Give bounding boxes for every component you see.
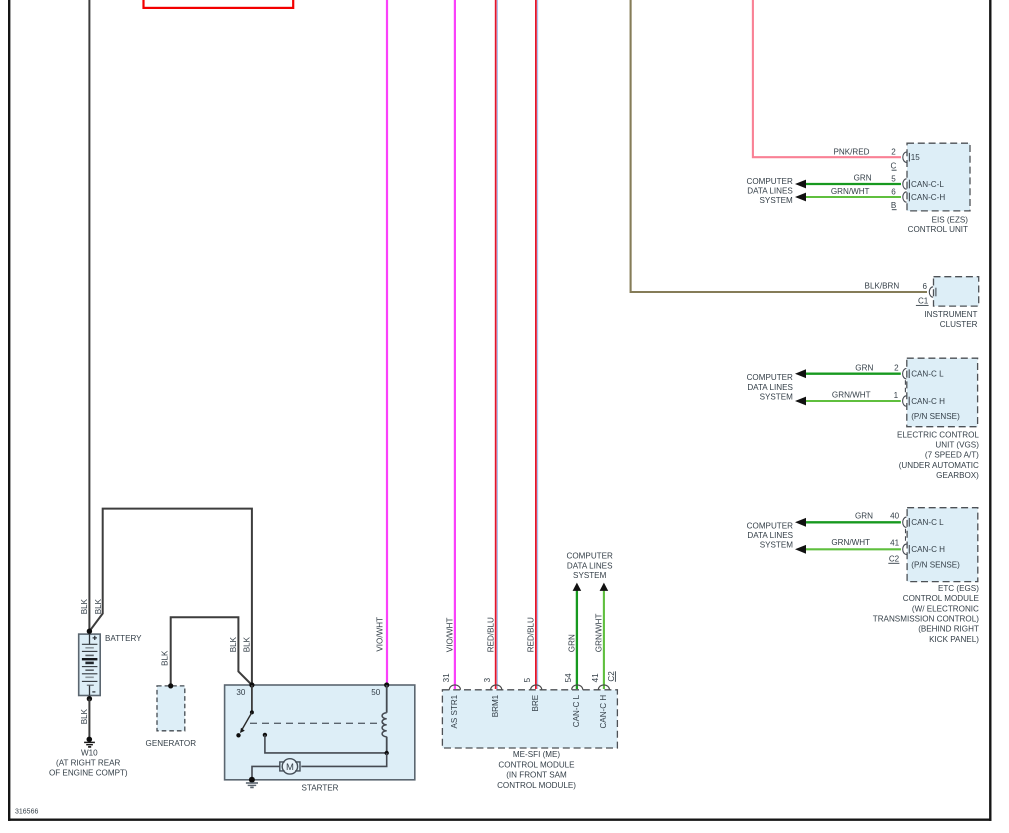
label ME-SFI caption	[497, 750, 576, 790]
wire VIO/WHT to starter 50	[386, 0, 388, 685]
battery B1	[79, 634, 101, 695]
svg-text:DATA LINES: DATA LINES	[747, 186, 793, 195]
svg-text:(7 SPEED A/T): (7 SPEED A/T)	[925, 451, 979, 460]
connector bracket VGS	[904, 380, 906, 394]
svg-text:TRANSMISSION CONTROL): TRANSMISSION CONTROL)	[873, 615, 979, 624]
svg-text:CLUSTER: CLUSTER	[940, 320, 978, 329]
svg-text:C2: C2	[607, 671, 616, 682]
svg-text:316566: 316566	[15, 809, 38, 816]
label VGS caption	[897, 430, 979, 480]
svg-text:(BEHIND RIGHT: (BEHIND RIGHT	[918, 625, 979, 634]
wire BLK battery to ground W10	[88, 699, 90, 737]
arrow left GRN (EIS)	[795, 180, 806, 189]
svg-text:3: 3	[483, 677, 492, 682]
svg-text:5: 5	[523, 677, 532, 682]
connector arc VGS pin 2	[903, 369, 910, 379]
svg-text:(UNDER AUTOMATIC: (UNDER AUTOMATIC	[899, 461, 979, 470]
label EIS caption	[908, 215, 969, 234]
svg-text:GRN/WHT: GRN/WHT	[832, 391, 871, 400]
svg-text:C: C	[890, 161, 896, 170]
node computer data lines system (middle)	[567, 552, 614, 580]
svg-text:SYSTEM: SYSTEM	[573, 571, 607, 580]
svg-text:OF ENGINE COMPT): OF ENGINE COMPT)	[49, 768, 128, 777]
connector C2 (ME)	[607, 671, 616, 682]
svg-text:CAN-C L: CAN-C L	[911, 518, 944, 527]
wire RED/BLU to ME pin 5	[536, 0, 538, 689]
svg-text:C1: C1	[918, 297, 929, 306]
red highlight box	[144, 0, 294, 8]
connector bracket EGS C2	[905, 529, 907, 543]
svg-text:BLK: BLK	[229, 636, 238, 652]
svg-text:KICK PANEL): KICK PANEL)	[929, 635, 979, 644]
wire GRN EIS pin 5	[803, 183, 901, 185]
svg-text:COMPUTER: COMPUTER	[747, 373, 793, 382]
svg-text:41: 41	[591, 673, 600, 683]
svg-text:CONTROL UNIT: CONTROL UNIT	[908, 225, 968, 234]
svg-text:40: 40	[890, 512, 900, 521]
svg-text:M: M	[286, 762, 294, 773]
instrument cluster box	[934, 277, 979, 306]
svg-text:(AT RIGHT REAR: (AT RIGHT REAR	[56, 758, 120, 767]
wire BLK battery to starter terminal 30	[89, 509, 252, 685]
label W10 location	[49, 748, 128, 777]
arrow left GRN (VGS)	[795, 369, 806, 378]
wire BLK generator to starter terminal 30	[171, 617, 252, 685]
svg-text:AS STR1: AS STR1	[450, 694, 459, 728]
arrow left GRN/WHT (EGS)	[795, 545, 806, 554]
svg-text:30: 30	[236, 688, 246, 697]
svg-text:BRE: BRE	[531, 694, 540, 711]
connector C2 (EGS)	[888, 554, 899, 563]
node battery positive terminal	[87, 629, 92, 634]
svg-text:STARTER: STARTER	[301, 784, 338, 793]
svg-text:RED/BLU: RED/BLU	[487, 617, 496, 652]
svg-text:(P/N SENSE): (P/N SENSE)	[911, 412, 960, 421]
arrow up GRN	[573, 583, 582, 591]
label instrument cluster caption	[924, 310, 977, 329]
svg-text:EIS (EZS): EIS (EZS)	[932, 215, 969, 224]
svg-text:2: 2	[894, 363, 899, 372]
svg-text:6: 6	[922, 282, 927, 291]
svg-text:COMPUTER: COMPUTER	[567, 552, 613, 561]
svg-text:5: 5	[891, 174, 896, 183]
svg-text:CAN-C-L: CAN-C-L	[911, 180, 944, 189]
svg-text:15: 15	[911, 153, 921, 162]
wire GRN/WHT EGS pin 41	[803, 548, 901, 550]
connector C (EIS)	[890, 161, 896, 170]
node computer data lines system (VGS)	[747, 373, 794, 401]
arrow up GRN/WHT	[600, 583, 609, 591]
VGS electric control unit box	[907, 358, 978, 427]
svg-text:PNK/RED: PNK/RED	[834, 147, 870, 156]
svg-text:(P/N SENSE): (P/N SENSE)	[911, 561, 960, 570]
svg-text:(IN FRONT SAM: (IN FRONT SAM	[506, 771, 567, 780]
svg-text:CAN-C L: CAN-C L	[572, 694, 581, 727]
svg-text:RED/BLU: RED/BLU	[527, 617, 536, 652]
svg-text:B: B	[891, 201, 896, 210]
svg-text:CONTROL MODULE: CONTROL MODULE	[498, 760, 575, 769]
connector arc instrument cluster pin 6	[929, 287, 936, 297]
connector bump pin 5	[531, 685, 542, 690]
arrow left GRN/WHT (VGS)	[795, 397, 806, 406]
svg-text:BLK/BRN: BLK/BRN	[865, 282, 900, 291]
starter ground	[246, 777, 258, 788]
svg-text:41: 41	[890, 538, 900, 547]
svg-text:BLK: BLK	[80, 598, 89, 614]
connector arc VGS pin 1	[903, 396, 910, 406]
connector arc EIS pin 6	[903, 192, 910, 202]
svg-text:COMPUTER: COMPUTER	[746, 177, 792, 186]
svg-text:CONTROL MODULE): CONTROL MODULE)	[497, 781, 576, 790]
svg-text:CAN-C H: CAN-C H	[911, 397, 945, 406]
svg-text:1: 1	[894, 391, 899, 400]
svg-text:50: 50	[371, 688, 381, 697]
svg-text:54: 54	[564, 673, 573, 683]
svg-text:BATTERY: BATTERY	[105, 634, 142, 643]
svg-text:COMPUTER: COMPUTER	[747, 521, 793, 530]
wire coil to motor	[301, 753, 386, 766]
label EGS caption	[873, 584, 980, 644]
svg-text:GRN/WHT: GRN/WHT	[594, 613, 603, 652]
svg-text:INSTRUMENT: INSTRUMENT	[924, 310, 977, 319]
svg-text:GRN/WHT: GRN/WHT	[831, 538, 870, 547]
connector arc EGS pin 40	[903, 517, 910, 527]
starter switch	[236, 685, 254, 738]
starter solenoid coil	[382, 685, 387, 753]
svg-text:DATA LINES: DATA LINES	[747, 383, 793, 392]
node starter terminal 30	[249, 682, 254, 687]
wire GRN/WHT EIS pin 6	[803, 196, 901, 198]
starter motor M	[280, 759, 300, 774]
svg-text:BLK: BLK	[161, 650, 170, 666]
svg-text:GRN: GRN	[854, 174, 872, 183]
svg-text:2: 2	[891, 148, 896, 157]
wire switch contact to coil bottom	[263, 733, 389, 756]
generator	[157, 683, 185, 731]
ground W10	[84, 737, 95, 747]
svg-text:BLK: BLK	[94, 598, 103, 614]
svg-text:ME-SFI (ME): ME-SFI (ME)	[513, 750, 561, 759]
connector arc EIS pin 2	[903, 152, 910, 162]
node computer data lines system (EIS)	[746, 177, 793, 205]
connector arc EGS pin 41	[903, 544, 910, 554]
wire VIO/WHT to ME pin 31	[454, 0, 456, 689]
wire motor to starter ground	[252, 766, 280, 779]
connector bump pin 3	[491, 685, 502, 690]
connector bump pin 41	[598, 685, 609, 690]
svg-text:GEARBOX): GEARBOX)	[936, 471, 979, 480]
connector bump pin 31	[449, 685, 460, 690]
svg-text:DATA LINES: DATA LINES	[747, 531, 793, 540]
wire GRN EGS pin 40	[803, 521, 901, 523]
svg-text:CAN-C H: CAN-C H	[599, 695, 608, 729]
arrow left GRN (EGS)	[795, 518, 806, 527]
starter solenoid mechanical link (dashed)	[250, 722, 384, 724]
arrow left GRN/WHT (EIS)	[795, 193, 806, 202]
svg-text:GENERATOR: GENERATOR	[146, 739, 197, 748]
svg-text:VIO/WHT: VIO/WHT	[445, 618, 454, 653]
svg-text:BLK: BLK	[80, 708, 89, 724]
wire GRN VGS pin 2	[803, 373, 901, 375]
svg-text:SYSTEM: SYSTEM	[760, 196, 794, 205]
svg-text:CONTROL MODULE: CONTROL MODULE	[903, 594, 980, 603]
svg-text:BLK: BLK	[243, 636, 252, 652]
ETC EGS control module box	[907, 508, 978, 582]
connector arc EIS pin 5	[903, 179, 910, 189]
wire RED/BLU to ME pin 3	[496, 0, 498, 689]
starter box	[225, 685, 415, 780]
svg-text:UNIT (VGS): UNIT (VGS)	[935, 441, 979, 450]
wire PNK/RED to EIS pin 2	[753, 0, 901, 157]
svg-text:SYSTEM: SYSTEM	[760, 541, 794, 550]
svg-text:BRM1: BRM1	[491, 694, 500, 717]
svg-text:VIO/WHT: VIO/WHT	[375, 617, 384, 652]
svg-text:GRN/WHT: GRN/WHT	[831, 187, 870, 196]
wire BLK battery feed	[88, 0, 90, 631]
wire GRN/WHT from ME pin 41 to data-line arrow	[603, 590, 605, 689]
connector B (EIS)	[891, 201, 897, 210]
node computer data lines system (EGS)	[747, 521, 794, 549]
svg-text:ELECTRIC CONTROL: ELECTRIC CONTROL	[897, 430, 979, 439]
node battery negative terminal	[87, 696, 92, 701]
ME-SFI control module box	[442, 690, 617, 748]
wire GRN/WHT VGS pin 1	[803, 400, 901, 402]
svg-text:GRN: GRN	[855, 363, 873, 372]
node starter terminal 50	[384, 682, 389, 687]
svg-text:GRN: GRN	[568, 634, 577, 652]
svg-text:CAN-C L: CAN-C L	[911, 370, 944, 379]
wire GRN from ME pin 54 to data-line arrow	[576, 590, 578, 689]
svg-text:SYSTEM: SYSTEM	[760, 392, 794, 401]
EIS control unit box	[907, 143, 970, 211]
svg-text:(W/ ELECTRONIC: (W/ ELECTRONIC	[912, 604, 979, 613]
svg-text:DATA LINES: DATA LINES	[567, 561, 613, 570]
svg-text:C2: C2	[889, 554, 900, 563]
svg-text:ETC (EGS): ETC (EGS)	[938, 584, 979, 593]
svg-text:6: 6	[891, 187, 896, 196]
connector C1 (instrument cluster)	[916, 297, 929, 306]
wire BLK/BRN to instrument cluster	[631, 0, 927, 292]
svg-text:CAN-C H: CAN-C H	[911, 545, 945, 554]
svg-text:CAN-C-H: CAN-C-H	[911, 193, 945, 202]
svg-text:W10: W10	[81, 748, 98, 757]
connector bump pin 54	[572, 685, 583, 690]
svg-text:31: 31	[442, 673, 451, 683]
svg-text:GRN: GRN	[855, 512, 873, 521]
